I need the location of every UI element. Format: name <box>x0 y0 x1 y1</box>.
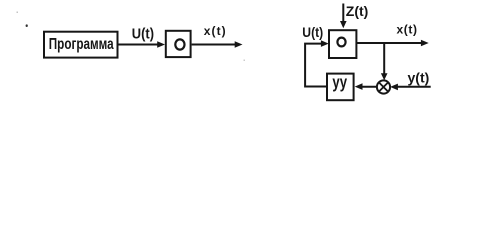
label O inside right block <box>337 38 345 47</box>
speck top-left faint <box>17 12 19 14</box>
label y(t) <box>408 70 430 86</box>
svg-text:U(t): U(t) <box>302 25 323 41</box>
svg-text:уу: уу <box>332 73 347 92</box>
wire branch down to comparator <box>383 43 385 75</box>
speck middle faint <box>244 60 246 62</box>
wire feedback UU to O <box>305 44 326 87</box>
comparator circle <box>377 80 390 93</box>
label U(t) left <box>132 26 154 42</box>
label x(t) right <box>397 23 418 37</box>
label Z(t) <box>346 3 369 19</box>
speck top-left dark <box>26 24 28 27</box>
label UU <box>332 73 347 92</box>
svg-text:U(t): U(t) <box>132 26 154 42</box>
svg-text:Программа: Программа <box>49 35 114 52</box>
wire comparator to UU <box>360 86 377 88</box>
wire Программа to O <box>119 44 159 46</box>
block O (right diagram) <box>329 30 356 58</box>
arrowhead into comparator top <box>381 73 388 80</box>
arrowhead output (right diagram) <box>421 40 429 47</box>
svg-text:x(t): x(t) <box>204 24 226 38</box>
arrowhead into O left (right diagram) <box>321 40 329 47</box>
arrowhead Z into O top <box>340 21 347 28</box>
arrowhead into O (left diagram) <box>157 41 165 48</box>
block O (left diagram) <box>166 31 191 57</box>
block Программа <box>44 32 118 58</box>
label O inside left block <box>175 39 184 49</box>
label U(t) right <box>302 25 323 41</box>
wire O output (right diagram) <box>356 42 422 44</box>
wire O output (left diagram) <box>192 44 236 46</box>
svg-text:y(t): y(t) <box>408 70 430 86</box>
wire y(t) input <box>396 86 431 88</box>
block UU <box>327 74 354 101</box>
svg-text:Z(t): Z(t) <box>346 3 369 19</box>
arrowhead into UU right <box>355 83 363 90</box>
arrowhead into comparator right <box>390 84 398 91</box>
label Программа <box>49 35 114 52</box>
arrowhead output (left diagram) <box>235 41 243 48</box>
svg-text:x(t): x(t) <box>397 23 418 37</box>
label x(t) left <box>204 24 226 38</box>
wire Z(t) vertical <box>342 4 344 24</box>
